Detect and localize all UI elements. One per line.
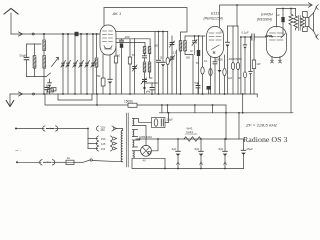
svg-text:15000: 15000 xyxy=(124,99,133,103)
choke Dr xyxy=(184,127,201,142)
arrow terminal top right xyxy=(309,3,313,7)
second vertical xyxy=(176,50,178,94)
tone cap xyxy=(277,8,286,38)
cathode drops E111 xyxy=(209,55,226,94)
antenna xyxy=(4,9,18,35)
svg-text:4µF: 4µF xyxy=(172,147,177,151)
svg-text:(RES964): (RES964) xyxy=(257,18,272,22)
vertical from B+ bus to rail xyxy=(238,113,240,139)
svg-text:ZF = 128,5 kHz: ZF = 128,5 kHz xyxy=(245,124,278,128)
tiny labels xyxy=(204,58,223,64)
svg-text:8000: 8000 xyxy=(236,57,242,61)
padder verticals right of osc xyxy=(155,31,169,94)
grid2 line xyxy=(116,31,168,33)
secondary W4 heater xyxy=(133,151,165,169)
label E443H xyxy=(257,13,273,22)
filter rail y=139 xyxy=(136,138,244,140)
oscillator coil pair upper xyxy=(143,47,151,58)
power transformer primary xyxy=(121,131,123,162)
plate riser E443H xyxy=(277,9,296,28)
cap 100 on line xyxy=(120,35,130,94)
svg-text:E443H: E443H xyxy=(261,13,273,17)
band switch xyxy=(46,73,51,77)
last cap drop xyxy=(241,139,253,169)
svg-text:AK 1: AK 1 xyxy=(112,11,122,16)
tube E111 xyxy=(207,27,224,58)
tap 150 xyxy=(88,138,98,140)
node dots on ground bus xyxy=(43,93,225,95)
wire bottom left tank y=76.6 xyxy=(26,76,46,78)
trimmer below osc xyxy=(141,78,147,94)
resistor drop at 202 xyxy=(201,36,204,94)
svg-text:50pF: 50pF xyxy=(20,54,27,58)
svg-text:50: 50 xyxy=(117,55,120,58)
svg-text:Radione OS 3: Radione OS 3 xyxy=(243,135,288,144)
cap branch to bus xyxy=(48,79,52,94)
HV filter box xyxy=(152,113,174,128)
secondary bus y=105 xyxy=(45,94,226,139)
bus94 end stub xyxy=(256,94,258,97)
resistor zigzag xyxy=(289,8,293,113)
tube AK1 xyxy=(100,25,116,55)
gang loop below bus xyxy=(58,94,92,100)
drop at 130 xyxy=(128,39,131,94)
svg-text:∼ ·: ∼ · xyxy=(15,148,22,153)
AVC cap and resistor near ground bus left xyxy=(45,85,56,94)
svg-text:110: 110 xyxy=(101,147,106,151)
svg-text:2µF: 2µF xyxy=(228,77,233,80)
IF2 drops xyxy=(226,4,240,94)
cathode cap C3 xyxy=(108,55,112,94)
svg-text:500: 500 xyxy=(195,81,200,85)
tap 125 xyxy=(88,143,98,145)
capacitor C1 xyxy=(24,57,29,76)
drop 242.7 94 to 112.8 xyxy=(242,94,244,113)
svg-text:1W: 1W xyxy=(257,62,261,66)
stub x=97 xyxy=(96,94,98,105)
mains input line 1 xyxy=(15,126,88,131)
node dots on antenna bus xyxy=(43,33,94,35)
connector square on bus xyxy=(75,32,79,36)
bottom return bus xyxy=(132,159,244,169)
ground xyxy=(6,94,14,107)
svg-text:0,1: 0,1 xyxy=(204,59,208,63)
resistor 15000 xyxy=(124,99,137,107)
trimmer on left frame xyxy=(133,65,138,71)
cathode resistor R2 xyxy=(101,55,105,95)
resistor 500 + cap above bus right xyxy=(195,81,212,94)
antenna coil L1 xyxy=(43,40,46,51)
svg-text:500: 500 xyxy=(186,57,191,60)
arrow on antenna lead xyxy=(19,32,23,36)
svg-text:µF: µF xyxy=(277,13,281,17)
svg-text:50000: 50000 xyxy=(216,58,224,62)
loudspeaker xyxy=(305,5,318,40)
svg-text:8µF: 8µF xyxy=(219,147,224,151)
tap 110 xyxy=(88,148,98,150)
wedge+oval drop at 245 xyxy=(238,37,247,94)
filter cap 8uF a xyxy=(195,138,204,168)
trimmer at 194 xyxy=(192,35,197,54)
svg-text:Fe43: Fe43 xyxy=(187,130,194,134)
grid wire to E443H xyxy=(240,31,266,41)
decoupling cap on bus at x=152 xyxy=(145,83,158,94)
filter cap 4uF xyxy=(172,138,181,168)
wire top tank y=44 xyxy=(26,44,41,57)
line B2 xyxy=(116,43,145,47)
svg-text:15µF: 15µF xyxy=(167,118,174,122)
B+ bus y=112.8 xyxy=(159,112,293,114)
svg-text:0,1µF: 0,1µF xyxy=(242,31,249,35)
oscillator coil pair lower xyxy=(143,54,152,87)
grid components at 198 xyxy=(197,35,200,94)
secondary W3 rect filament xyxy=(133,139,140,147)
plate riser AK1 + top bus xyxy=(104,8,187,41)
filter cap 8uF b xyxy=(219,138,228,168)
oscillator coupling coil L4 xyxy=(95,33,98,94)
label E111 xyxy=(204,12,223,21)
voltage selector xyxy=(87,126,123,151)
tube E443H xyxy=(267,27,287,64)
tank coil L2b xyxy=(43,51,46,77)
plain drop at 240.9 xyxy=(240,37,242,94)
gang arrow mark xyxy=(52,58,59,67)
svg-text:E111: E111 xyxy=(211,12,219,16)
svg-text:240: 240 xyxy=(101,129,106,132)
box drop at 254 xyxy=(252,40,261,94)
svg-text:1A: 1A xyxy=(67,156,71,160)
IF transformer T1 coils xyxy=(179,36,205,94)
svg-text:30: 30 xyxy=(190,50,193,53)
svg-text:100: 100 xyxy=(125,35,130,39)
tank coil L2a xyxy=(33,44,36,77)
short verticals between buses xyxy=(162,105,213,113)
AVC line vertical x=172 xyxy=(170,36,175,94)
svg-text:50: 50 xyxy=(97,74,101,78)
wire antenna bus y=34 xyxy=(11,33,100,35)
wire down to antenna coil xyxy=(43,34,45,40)
mains input line 2 with fuse xyxy=(16,159,123,165)
rectifier tube G354 xyxy=(141,139,158,156)
svg-text:300: 300 xyxy=(154,45,159,48)
plate line A2 xyxy=(116,39,150,47)
wedge drop at 250.5 xyxy=(249,36,252,94)
tuning gang: 6 variable capacitors xyxy=(52,34,96,94)
svg-text:25µF: 25µF xyxy=(247,147,254,151)
secondary HV xyxy=(133,119,152,146)
grid stopper coil xyxy=(266,36,273,37)
output transformer xyxy=(294,9,308,32)
svg-text:8µF: 8µF xyxy=(195,147,200,151)
third pin w box xyxy=(115,47,117,56)
plate riser E111 + top bus2 xyxy=(220,5,313,27)
transformer core xyxy=(126,113,128,167)
arrow on ground lead xyxy=(19,92,23,96)
svg-text:150: 150 xyxy=(101,137,106,141)
svg-text:125: 125 xyxy=(101,142,106,146)
resistor R1 xyxy=(48,89,54,92)
svg-text:G354 1064: G354 1064 xyxy=(139,135,152,139)
left frame of osc block xyxy=(134,39,136,95)
svg-text:15: 15 xyxy=(160,57,163,60)
svg-text:4V: 4V xyxy=(143,158,146,162)
secondary W2 xyxy=(133,130,138,137)
ground bus y=94 xyxy=(10,93,257,95)
tap 220 xyxy=(96,126,114,131)
